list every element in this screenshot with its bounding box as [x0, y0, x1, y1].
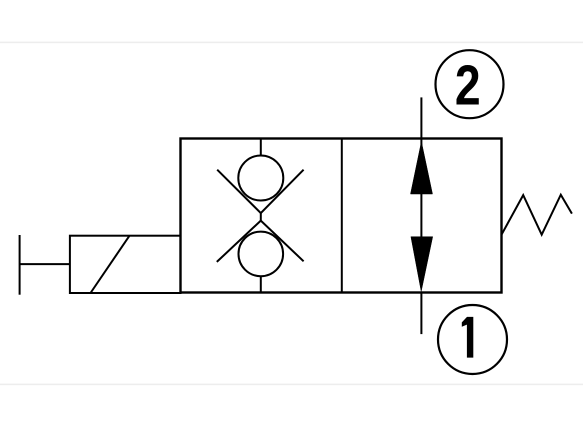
wire bottom stub from lower check ball	[260, 276, 262, 293]
wire port 2 line	[420, 97, 422, 146]
check ball upper circle	[238, 156, 283, 201]
faint top rule	[0, 42, 583, 44]
solenoid box	[70, 236, 181, 293]
check ball lower circle	[238, 232, 283, 277]
port 1 circle	[438, 305, 507, 374]
port 1 label	[462, 317, 474, 358]
flow arrow down	[411, 237, 433, 292]
flow arrow up	[411, 142, 433, 194]
wire top stub to upper check ball	[260, 139, 262, 157]
faint bottom rule	[0, 384, 583, 386]
wire stub between seats	[260, 212, 262, 221]
valve body rectangle	[181, 139, 502, 293]
spring	[502, 195, 572, 235]
wire solenoid lead	[20, 263, 70, 265]
wire port 1 line	[420, 293, 422, 335]
terminal bar	[19, 235, 21, 295]
svg-text:2: 2	[455, 53, 481, 116]
solenoid diagonal	[91, 236, 130, 293]
port 2 circle	[436, 50, 504, 118]
cell divider wire	[341, 139, 343, 293]
wire between arrows	[420, 193, 422, 238]
lower check valve seat V	[217, 221, 304, 262]
upper check valve seat V	[217, 170, 303, 213]
